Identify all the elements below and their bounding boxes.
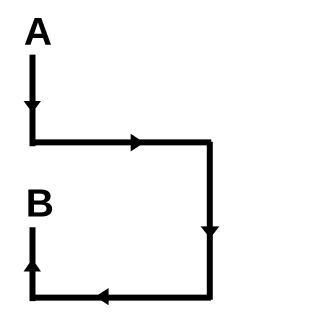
wire up to B: [30, 227, 36, 301]
svg-text:A: A: [24, 11, 52, 54]
arrowhead left on bottom wire: [95, 288, 108, 305]
wire middle horizontal: [32, 139, 211, 145]
wire bottom horizontal: [32, 295, 211, 301]
wire from A downward: [30, 55, 36, 147]
svg-text:B: B: [26, 183, 54, 226]
arrowhead down on wire from A: [24, 101, 41, 113]
arrowhead right on middle wire: [131, 134, 145, 152]
arrowhead down on right wire: [201, 226, 220, 238]
arrowhead up on wire to B: [24, 259, 41, 272]
wire right vertical: [207, 142, 213, 300]
